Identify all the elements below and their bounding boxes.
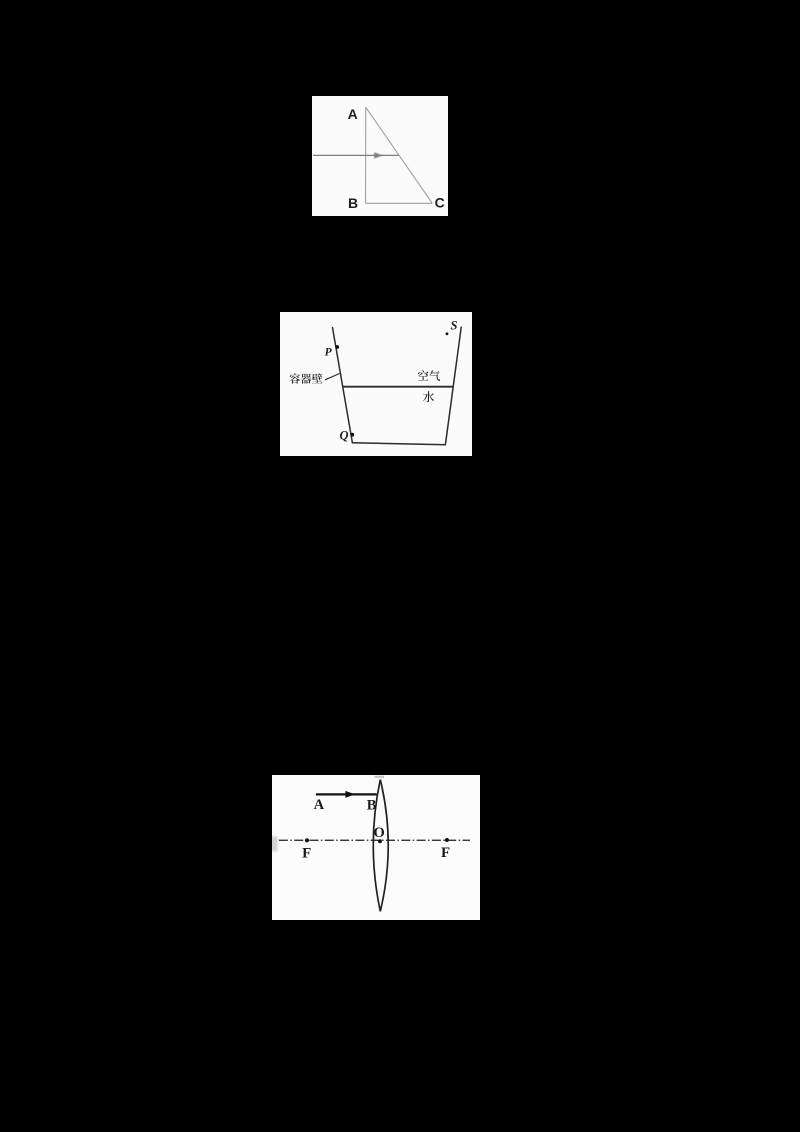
container left wall (extends above rim)	[333, 328, 353, 443]
water surface line	[343, 386, 454, 388]
optical centre dot O	[378, 839, 382, 843]
svg-text:B: B	[367, 798, 377, 814]
text 空气 (air)	[418, 370, 440, 381]
prism hypotenuse AC	[366, 107, 433, 203]
gray smudge at left edge of panel	[270, 837, 278, 852]
svg-text:S: S	[451, 318, 458, 332]
svg-text:O: O	[374, 825, 385, 841]
incident ray A to B	[316, 793, 377, 795]
point S dot	[446, 332, 449, 335]
prism base BC	[366, 202, 433, 204]
svg-text:F: F	[441, 845, 450, 861]
text 水 (water)	[423, 391, 434, 402]
ray arrowhead	[374, 152, 382, 158]
point Q dot	[350, 433, 354, 437]
incident ray (horizontal, entering from left)	[313, 154, 399, 156]
leader line from wall label to left wall	[325, 374, 340, 380]
faint tick above lens tip	[374, 776, 384, 778]
figure 3: converging lens with axis, focal points F, ray AB (white panel)	[272, 775, 480, 920]
right focal point dot F	[445, 838, 449, 842]
figure 1: glass prism ABC with incident ray (white panel)	[312, 96, 448, 216]
container right wall (extends above rim)	[446, 327, 462, 444]
ray arrowhead	[345, 791, 355, 798]
svg-text:B: B	[348, 195, 358, 211]
left focal point dot F	[305, 838, 309, 842]
principal optical axis (dash-dot)	[279, 839, 470, 841]
svg-text:Q: Q	[339, 428, 348, 442]
point P dot	[335, 345, 339, 349]
svg-text:P: P	[325, 347, 333, 359]
container bottom	[352, 443, 445, 445]
svg-text:F: F	[302, 846, 311, 862]
convex lens (biconvex outline)	[373, 780, 388, 912]
prism side AB (vertical)	[365, 107, 367, 203]
svg-text:A: A	[348, 106, 358, 122]
figure 2: water container with points P, S, Q (white panel)	[280, 312, 472, 456]
text 容器壁 (container wall)	[290, 373, 323, 383]
svg-text:A: A	[314, 797, 325, 813]
svg-text:C: C	[435, 195, 445, 211]
